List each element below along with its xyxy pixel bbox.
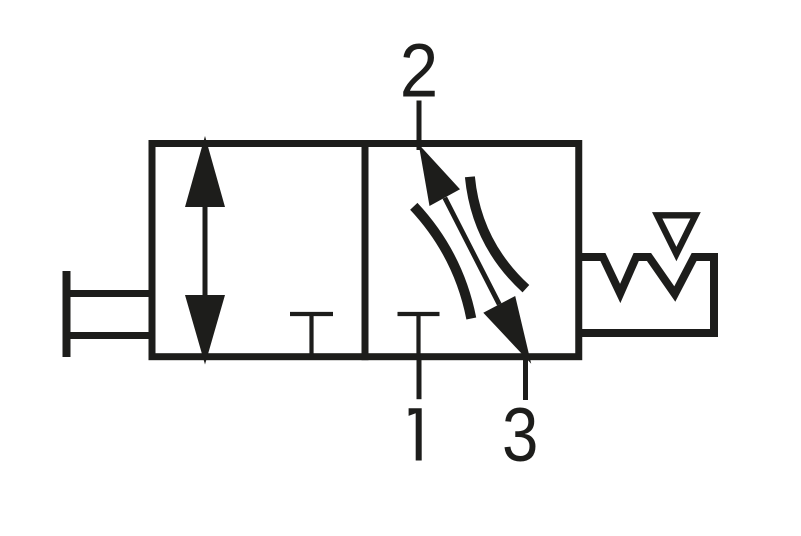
left-cell arrowhead up [185,136,225,207]
label 1 [409,408,422,460]
port 3 line [523,357,528,400]
port 1 line [417,357,422,399]
diagonal arrowhead to port 3 [483,296,531,364]
exhaust triangle [657,215,695,254]
push rod upper [63,290,153,297]
throttle arc right [470,177,526,289]
diagonal arrow shaft [445,198,500,305]
port 2 line [417,101,422,151]
svg-text:3: 3 [502,394,538,479]
svg-text:2: 2 [400,29,438,114]
blocked port T left cell [290,312,333,316]
diagonal arrowhead to port 2 [419,144,460,206]
labels [400,29,539,479]
left-cell double arrow shaft [203,205,208,297]
valve body right cell [365,144,579,357]
valve body left cell [152,144,365,357]
push rod plate [63,271,71,357]
throttle arc left [414,206,472,318]
blocked port T right cell (port 1) [398,312,440,316]
spring return [579,257,714,333]
left-cell arrowhead down [185,295,225,365]
push rod lower [63,332,153,339]
